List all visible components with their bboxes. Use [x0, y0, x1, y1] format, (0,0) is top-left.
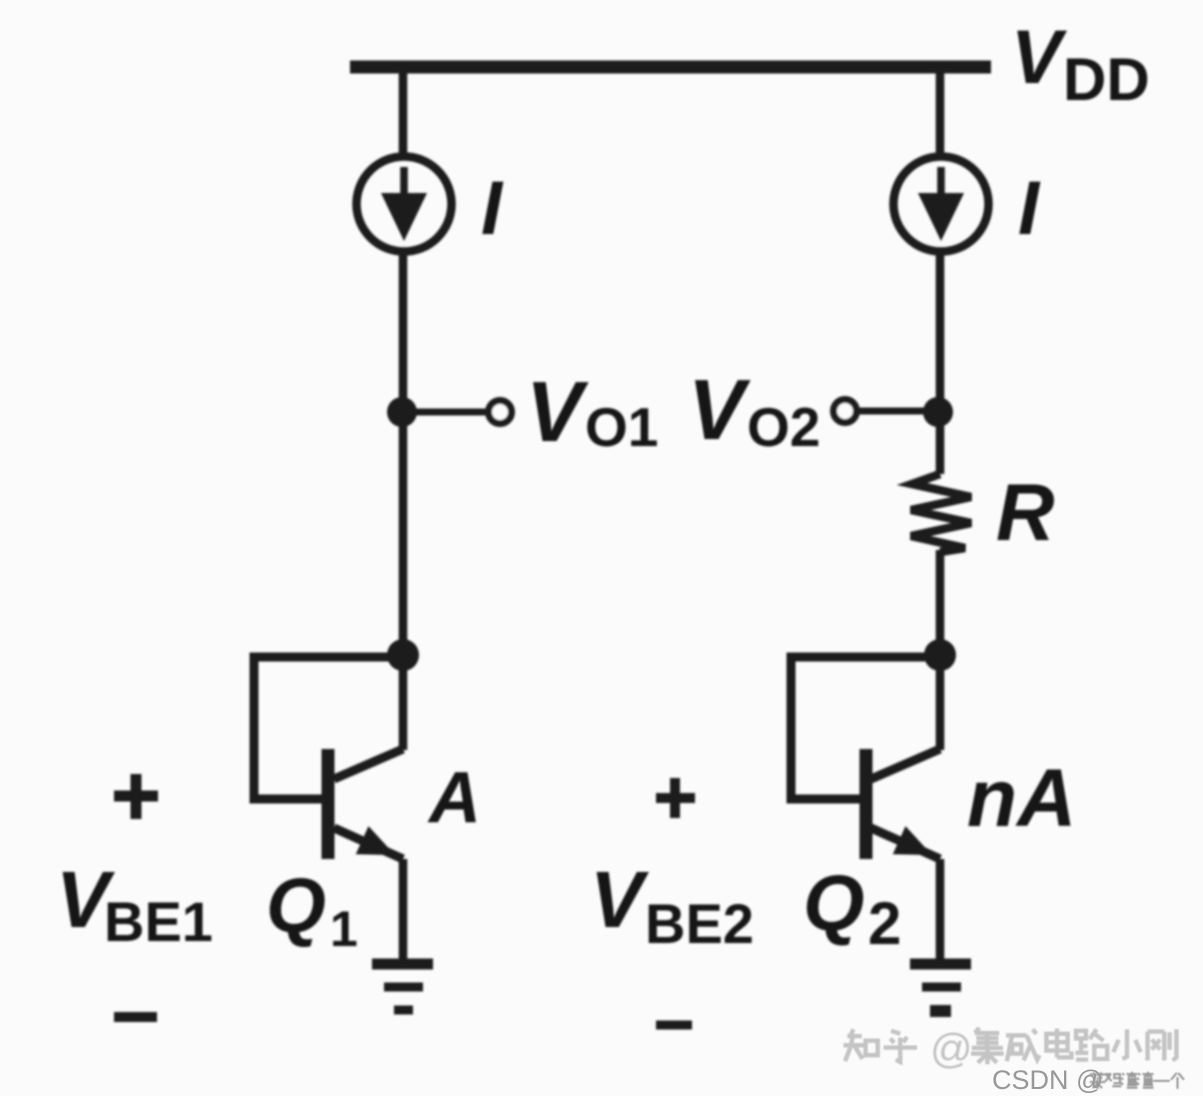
- svg-text:V: V: [688, 363, 751, 458]
- svg-text:I: I: [481, 166, 504, 251]
- svg-text:nA: nA: [967, 753, 1076, 844]
- svg-text:BE2: BE2: [645, 892, 754, 955]
- svg-text:DD: DD: [1063, 46, 1150, 113]
- svg-text:R: R: [996, 468, 1055, 558]
- svg-text:V: V: [590, 855, 649, 944]
- svg-text:A: A: [427, 758, 481, 838]
- svg-text:Q: Q: [266, 863, 326, 949]
- svg-text:BE1: BE1: [104, 890, 213, 953]
- svg-text:O1: O1: [585, 396, 658, 458]
- svg-text:CSDN @: CSDN @: [992, 1065, 1103, 1095]
- svg-text:I: I: [1018, 166, 1041, 251]
- svg-text:O2: O2: [747, 396, 820, 458]
- svg-text:V: V: [526, 365, 589, 460]
- svg-text:@: @: [930, 1025, 973, 1072]
- svg-text:2: 2: [868, 890, 901, 957]
- svg-text:V: V: [1011, 15, 1067, 100]
- svg-text:Q: Q: [803, 858, 864, 947]
- svg-text:1: 1: [330, 901, 358, 957]
